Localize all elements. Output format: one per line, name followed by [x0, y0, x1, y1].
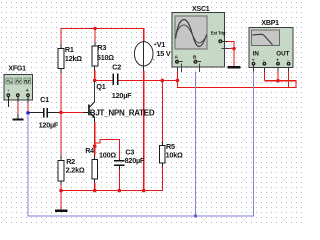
- svg-text:Ext Trig: Ext Trig: [211, 30, 226, 35]
- wire XBP1 IN- stub: [263, 66, 265, 81]
- svg-text:+: +: [26, 88, 29, 94]
- svg-text:100Ω: 100Ω: [99, 151, 116, 160]
- svg-text:B: B: [193, 55, 197, 61]
- svg-text:V1: V1: [157, 40, 166, 49]
- node ext trig junction: [232, 47, 235, 50]
- capacitor C1: [39, 95, 59, 129]
- function generator XFG1: [4, 66, 32, 100]
- node scope A junction: [176, 79, 180, 83]
- ground XFG1: [12, 118, 23, 120]
- ground main: [55, 210, 68, 212]
- node rail R2: [59, 189, 63, 193]
- svg-text:820µF: 820µF: [125, 156, 145, 165]
- svg-text:BJT_NPN_RATED: BJT_NPN_RATED: [90, 108, 155, 117]
- wire base node to Q1 base: [61, 111, 83, 113]
- bode plotter XBP1: [249, 20, 293, 67]
- wire ext trig lower stub: [222, 48, 235, 50]
- svg-text:2.2kΩ: 2.2kΩ: [66, 166, 85, 175]
- svg-text:+: +: [252, 57, 255, 62]
- svg-text:120µF: 120µF: [39, 121, 59, 130]
- ground XSC1: [228, 66, 241, 68]
- wire R3 bottom stem: [94, 66, 96, 80]
- wire ext trig upper stub: [222, 40, 235, 42]
- svg-text:120µF: 120µF: [112, 91, 132, 100]
- wire C3 bottom stem: [118, 170, 120, 191]
- svg-text:510Ω: 510Ω: [97, 53, 114, 62]
- node collector junction: [93, 79, 97, 83]
- svg-text:15 V: 15 V: [157, 49, 171, 58]
- wire input blue net: [28, 72, 254, 216]
- node output junction R5: [161, 79, 165, 83]
- svg-text:A: A: [175, 55, 179, 61]
- wire XBP1 OUT+ stub: [277, 66, 279, 81]
- capacitor C3: [114, 147, 145, 169]
- svg-text:C1: C1: [40, 95, 49, 104]
- wire XSC1 B blue stem: [195, 72, 197, 216]
- wire C2 right to output node: [118, 79, 162, 81]
- svg-text:-: -: [8, 88, 10, 94]
- wire V1 bottom stem: [143, 66, 145, 191]
- oscilloscope XSC1: [172, 6, 226, 67]
- resistor R1: [58, 45, 82, 69]
- wire R5 bottom stem: [161, 163, 163, 191]
- node rail C3: [118, 189, 122, 193]
- voltage source V1: [134, 40, 170, 66]
- svg-text:R4: R4: [85, 146, 94, 155]
- svg-text:XFG1: XFG1: [8, 66, 26, 73]
- node base bias junction: [59, 111, 63, 115]
- wire ext trig down: [233, 41, 235, 66]
- wire top rail V1-R1-R3: [61, 28, 145, 30]
- svg-text:R3: R3: [97, 43, 106, 52]
- svg-text:10kΩ: 10kΩ: [166, 150, 183, 159]
- wire R2 top stem: [60, 112, 62, 160]
- resistor R5: [160, 142, 183, 163]
- wire output feed to XBP1: [177, 80, 297, 87]
- svg-text:C2: C2: [112, 63, 121, 72]
- wire C1 to base node: [48, 111, 60, 113]
- svg-text:Q1: Q1: [96, 82, 105, 91]
- wire R2 bottom stem: [60, 181, 62, 191]
- node top rail R3 junction: [93, 27, 96, 30]
- svg-text:XBP1: XBP1: [261, 20, 279, 27]
- wire rail ground stem: [60, 191, 62, 210]
- resistor R2: [58, 157, 85, 181]
- node XBP1 out+ junction: [276, 79, 280, 83]
- node blue bottom junction: [194, 214, 197, 217]
- wire R5 top stem: [161, 80, 163, 145]
- wire R1 bottom stem: [60, 69, 62, 113]
- svg-text:12kΩ: 12kΩ: [65, 54, 82, 63]
- wire XFG1 minus stub: [7, 97, 9, 107]
- wire R1 top stem: [60, 29, 62, 49]
- node emitter junction: [93, 144, 97, 148]
- wire output to scope A junction: [162, 79, 177, 81]
- node input junction (blue): [26, 111, 29, 114]
- node rail R4: [93, 189, 97, 193]
- wire R4 top stem: [94, 146, 96, 160]
- wire XSC1 A- stub: [180, 64, 182, 72]
- node rail V1: [142, 189, 146, 193]
- wire Q1 emitter stem: [94, 122, 96, 146]
- wire XFG1 com stem: [17, 97, 19, 118]
- wire XBP1 IN+ stub: [253, 66, 255, 72]
- wire V1 top stem: [143, 28, 145, 42]
- svg-text:+: +: [276, 57, 279, 62]
- svg-text:R1: R1: [65, 45, 74, 54]
- resistor R3: [92, 43, 114, 66]
- wire XBP1 OUT- stub: [288, 66, 290, 88]
- wire emitter to C3 zigzag: [95, 139, 120, 158]
- wire to C1: [30, 111, 43, 113]
- capacitor C2: [112, 63, 132, 101]
- wire XSC1 A stub: [177, 64, 179, 81]
- transistor Q1: [83, 80, 155, 122]
- wire bottom ground rail: [61, 190, 163, 192]
- wire R4 bottom stem: [94, 179, 96, 191]
- resistor R4: [85, 146, 116, 179]
- wire XSC1 B- stub: [199, 64, 201, 72]
- wire XFG1 plus stub: [27, 97, 29, 111]
- wire R3 top stem: [94, 29, 96, 46]
- wire C2 left: [95, 79, 113, 81]
- svg-text:R2: R2: [66, 157, 75, 166]
